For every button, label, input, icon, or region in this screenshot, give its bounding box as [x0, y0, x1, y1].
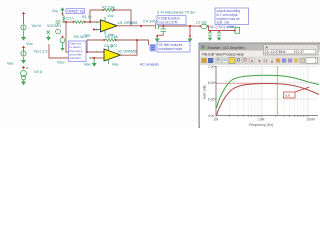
shunt R to gnd 1: [208, 30, 212, 41]
resistor R2: [102, 5, 115, 11]
U2 supply pins: [108, 46, 110, 51]
svg-text:Vee: Vee: [112, 63, 119, 67]
U2 minus tick: [96, 51, 98, 53]
svg-text:A: 13.37MHz: A: 13.37MHz: [267, 50, 286, 54]
svg-text:AC analysis: AC analysis: [140, 63, 159, 67]
x axis minor ticks: [216, 116, 308, 118]
VG2 wire from left: [49, 44, 68, 58]
source VG2b: [60, 36, 65, 51]
output marker B: [150, 44, 157, 52]
svg-text:C1 1n: C1 1n: [65, 17, 74, 21]
y axis: [215, 66, 217, 116]
resistor R1: [73, 15, 92, 23]
source VG1a (top-left): [21, 12, 26, 31]
cursor horizontal line: [216, 82, 278, 84]
shunt R to gnd 2: [217, 30, 221, 41]
supply arrow Vcc top: [60, 7, 64, 13]
svg-text:T: T: [258, 59, 261, 64]
svg-text:insertion: insertion: [70, 56, 82, 60]
green curve: [217, 75, 320, 108]
wire after C4: [159, 25, 197, 27]
ground under VG1a: [21, 31, 26, 41]
svg-text:100M: 100M: [307, 118, 316, 122]
svg-text:Vcc: Vcc: [111, 44, 117, 48]
vcvs X symbol: [47, 29, 61, 34]
wire VOCM down to U2: [66, 22, 104, 52]
shunt branch at 190: [189, 26, 191, 37]
junction feedback: [89, 21, 91, 23]
source VS1: [21, 66, 29, 80]
svg-text:U2 OPA656: U2 OPA656: [118, 50, 137, 54]
feedback wire to output: [114, 10, 132, 26]
svg-text:File Edit View Process Hel: File Edit View Process Help: [202, 52, 244, 56]
svg-text:5.00: 5.00: [208, 97, 215, 101]
menu bar: [200, 51, 320, 57]
annotation box E: [215, 8, 249, 25]
capacitor C5 shunt: [161, 21, 180, 33]
ground under U2 plus node: [93, 59, 95, 63]
inductor L1 vertical: [63, 14, 65, 23]
inductor L2: [196, 20, 209, 28]
client area: [200, 65, 320, 128]
wire to out marker: [137, 40, 149, 45]
annotation box D: [69, 41, 87, 62]
svg-text:Frequency (Hz): Frequency (Hz): [249, 123, 273, 127]
window frame: [199, 43, 320, 128]
voltmeter VM1: [229, 25, 240, 34]
svg-text:OPA657 inp: OPA657 inp: [67, 9, 84, 13]
svg-text:R2 3.6k: R2 3.6k: [102, 5, 115, 9]
plot grid minor vertical: [230, 66, 306, 116]
svg-text:a,b: a,b: [285, 94, 290, 98]
capacitor C4 series: [143, 19, 159, 30]
U2 plus input wire: [90, 57, 104, 59]
annotation box C: [157, 42, 190, 53]
op-amp U1: [101, 20, 118, 32]
svg-text:6.00: 6.00: [208, 81, 215, 85]
cursor readout panel: [264, 45, 319, 56]
red curve: [217, 84, 320, 115]
wire C5 to ground: [157, 33, 163, 36]
schematic background: [0, 0, 320, 128]
title bar: [200, 44, 320, 51]
svg-text:split. null: split. null: [217, 21, 230, 25]
svg-text:1M: 1M: [214, 118, 219, 122]
svg-text:VOCM 1: VOCM 1: [47, 24, 61, 28]
resistor R4 feedback U2: [74, 35, 137, 52]
wire L2 to VM: [196, 26, 235, 30]
U1 output wire: [117, 25, 155, 27]
svg-text:Vee: Vee: [7, 62, 14, 66]
svg-text:Gain (dB): Gain (dB): [203, 85, 207, 99]
svg-text:Vin N: Vin N: [32, 24, 41, 28]
toolbar: [200, 57, 320, 65]
svg-text:10M: 10M: [258, 118, 265, 122]
svg-text:VS 5: VS 5: [34, 70, 42, 74]
svg-text:C4 100n: C4 100n: [143, 19, 158, 24]
cursor label box a: [284, 87, 310, 98]
svg-text:L2 12n: L2 12n: [196, 20, 207, 24]
ground under VG1: [21, 57, 26, 64]
svg-text:VG1 2.5: VG1 2.5: [34, 50, 48, 54]
svg-text:loss at 2.37M: loss at 2.37M: [159, 20, 178, 24]
source VG1: [21, 46, 26, 57]
annotation box A: [66, 9, 85, 14]
y axis labels: [208, 65, 215, 118]
svg-text:A: A: [251, 59, 254, 63]
svg-text:R3 49.9: R3 49.9: [74, 35, 87, 39]
ground under VS1: [21, 80, 26, 86]
x axis: [216, 115, 318, 117]
svg-text:VG2: VG2: [57, 61, 65, 65]
svg-text:broadband noise: broadband noise: [159, 47, 183, 51]
svg-text:Vcc: Vcc: [26, 41, 33, 46]
cursor vertical line: [277, 66, 279, 116]
U1 supply pins: [104, 17, 106, 22]
x axis labels: [214, 118, 316, 122]
ground filter right: [188, 35, 193, 42]
svg-text:U1 OPA656: U1 OPA656: [118, 21, 137, 25]
svg-text:2.37: 2.37: [298, 50, 305, 54]
capacitor C decouple: [56, 21, 61, 26]
ground under X: [46, 35, 51, 41]
plot grid major: [216, 66, 318, 116]
annotation box B: [157, 16, 186, 25]
wire main input y26: [63, 21, 75, 23]
svg-text:Browser : (AC Amplifier): Browser : (AC Amplifier): [208, 46, 245, 50]
svg-text:Vcc: Vcc: [108, 14, 114, 18]
svg-text:Vee: Vee: [84, 63, 91, 67]
wire R1 to U1 minus: [84, 21, 101, 23]
ground filter left: [155, 35, 160, 42]
junction node: [65, 21, 67, 23]
feedback wire up: [90, 10, 104, 22]
svg-text:Vcc: Vcc: [52, 9, 58, 13]
U2 feedback right leg: [121, 40, 138, 55]
U1 plus input wire: [94, 29, 101, 31]
svg-text:R4 3.6k: R4 3.6k: [105, 35, 118, 39]
op-amp U2: [104, 49, 121, 61]
svg-text:7.00: 7.00: [208, 65, 215, 69]
svg-text:2.7x inductance 7V 8u: 2.7x inductance 7V 8u: [157, 11, 195, 15]
